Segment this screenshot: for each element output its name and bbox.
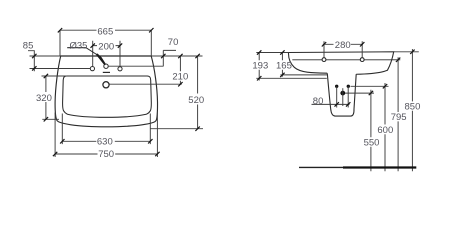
overflow slot dash on deck	[103, 71, 110, 73]
svg-text:165: 165	[276, 60, 292, 71]
svg-text:80: 80	[313, 96, 324, 107]
600 level line	[351, 85, 389, 87]
svg-text:Ø35: Ø35	[70, 40, 88, 51]
dimension 850 vertical	[411, 49, 413, 171]
dimension 750 line	[55, 153, 157, 155]
deck hole front (side view)	[322, 58, 326, 62]
rim level extension line right	[151, 55, 202, 57]
tap hole right	[118, 67, 122, 71]
basin bottom extension right	[151, 128, 204, 130]
oblique ticks, side view	[257, 42, 415, 107]
dimension 210 vertical	[179, 56, 181, 84]
165 level line	[280, 74, 327, 76]
basin outer outline (front view)	[55, 56, 157, 127]
svg-text:850: 850	[405, 102, 421, 113]
550 level line	[345, 92, 374, 94]
dimension 795 vertical	[397, 57, 399, 171]
bowl bottom stub	[42, 118, 59, 120]
svg-text:600: 600	[377, 125, 393, 136]
oblique ticks, front view	[32, 28, 200, 156]
svg-text:630: 630	[97, 137, 113, 148]
basin side silhouette	[288, 52, 393, 74]
rim back extension for 850	[394, 51, 419, 53]
dimension 665 line	[60, 29, 151, 31]
rim level extension left (side)	[256, 52, 288, 54]
630 extension lines	[62, 114, 150, 145]
floor line thick right part	[343, 166, 416, 168]
svg-text:795: 795	[391, 112, 407, 123]
svg-text:193: 193	[252, 60, 268, 71]
fixing bolt dot left	[335, 85, 338, 88]
svg-text:750: 750	[98, 149, 114, 160]
leader arrowhead	[97, 55, 105, 64]
280 extension verticals through holes	[324, 41, 362, 57]
rim level extension line left	[30, 55, 61, 57]
overflow hole	[103, 82, 109, 88]
750 extension lines	[55, 113, 157, 158]
svg-text:85: 85	[23, 41, 34, 52]
dimension 600 vertical	[384, 83, 386, 171]
svg-text:70: 70	[168, 37, 179, 48]
dimension 70 flag	[163, 50, 176, 66]
tap hole level extension right	[108, 65, 163, 67]
leader line for Ø35	[86, 48, 99, 56]
dimension 85 flag	[28, 51, 34, 72]
fixing bolt dot right	[347, 85, 350, 88]
dimension 630 line	[62, 140, 150, 142]
svg-text:520: 520	[188, 95, 204, 106]
inner bowl outline (front view)	[63, 76, 152, 117]
dimension 280 line	[323, 43, 363, 45]
floor line thin left part	[299, 166, 344, 168]
bolt verticals	[337, 86, 349, 107]
svg-text:210: 210	[172, 71, 188, 82]
svg-text:550: 550	[364, 138, 380, 149]
dimension 520 vertical	[197, 56, 199, 129]
deck line side view	[292, 59, 400, 61]
dimension 200 line and extensions	[93, 41, 120, 67]
193 level line	[256, 77, 327, 79]
dimension 320 vertical	[45, 76, 47, 119]
dimension 80 line	[312, 103, 350, 105]
dimension 165 vertical	[281, 53, 283, 77]
665 extension line right	[150, 30, 152, 56]
svg-text:665: 665	[97, 26, 113, 37]
tap hole middle	[104, 64, 108, 68]
svg-text:280: 280	[335, 40, 351, 51]
svg-text:320: 320	[36, 93, 52, 104]
tap hole level extension left	[30, 68, 91, 70]
drain outlet dot	[340, 91, 345, 96]
overflow level extension	[109, 83, 181, 85]
deck level extension left	[42, 75, 68, 77]
tap hole left	[90, 67, 94, 71]
dimension 550 vertical	[370, 90, 372, 172]
semi-pedestal outline	[327, 73, 356, 116]
665 extension line left	[59, 30, 61, 56]
Ø35 label underline	[67, 47, 86, 49]
svg-text:200: 200	[98, 41, 114, 52]
dimension 193 vertical	[258, 53, 260, 81]
drain vertical	[342, 88, 344, 106]
deck hole back (side view)	[360, 58, 364, 62]
